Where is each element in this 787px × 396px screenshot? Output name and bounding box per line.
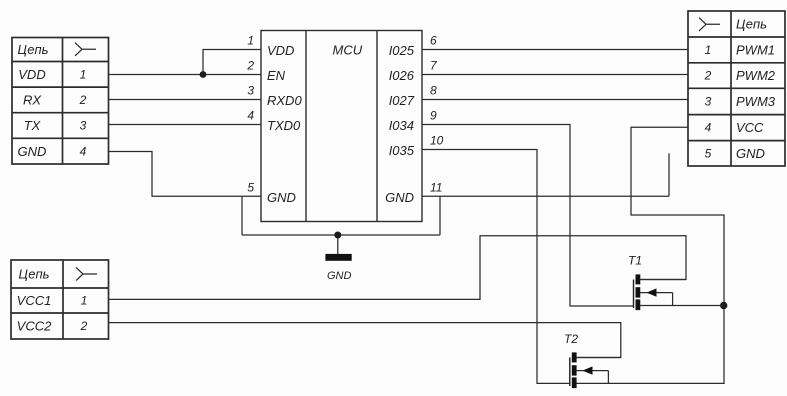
wire IO26 to PWM2 <box>422 74 688 76</box>
svg-text:1: 1 <box>705 43 712 57</box>
svg-text:I027: I027 <box>389 93 415 108</box>
connector symbol X3 header <box>76 267 97 280</box>
svg-text:6: 6 <box>430 34 437 48</box>
svg-text:1: 1 <box>247 34 254 48</box>
svg-text:GND: GND <box>736 146 765 161</box>
svg-text:Цепь: Цепь <box>19 267 50 282</box>
svg-text:RX: RX <box>23 93 42 108</box>
svg-text:1: 1 <box>80 68 87 82</box>
svg-text:9: 9 <box>430 109 437 123</box>
wire pin5 branch to ground rail <box>241 196 243 235</box>
wire TX to TXD0 <box>109 124 262 126</box>
svg-text:2: 2 <box>80 319 88 333</box>
svg-text:I026: I026 <box>389 68 415 83</box>
svg-text:3: 3 <box>80 119 87 133</box>
svg-text:4: 4 <box>247 109 254 123</box>
svg-text:I035: I035 <box>389 143 415 158</box>
wire stub to VDD pin1 <box>203 50 261 75</box>
svg-text:TXD0: TXD0 <box>267 118 301 133</box>
junction node VDD <box>200 71 207 78</box>
svg-text:PWM3: PWM3 <box>736 94 776 109</box>
svg-text:PWM1: PWM1 <box>736 43 775 58</box>
wire pin11 GND <box>422 195 669 197</box>
wire ground rail <box>242 234 440 236</box>
svg-text:I034: I034 <box>389 118 414 133</box>
wire VCC1 to T1 drain <box>109 236 687 300</box>
connector symbol X1 header <box>75 43 96 56</box>
wire pin11 branch down <box>439 196 441 235</box>
wire T1 source to VCC net <box>640 305 724 307</box>
svg-text:1: 1 <box>81 294 88 308</box>
svg-text:RXD0: RXD0 <box>267 93 302 108</box>
svg-text:VCC2: VCC2 <box>17 319 52 334</box>
svg-text:2: 2 <box>704 69 712 83</box>
wire right table GND row down <box>668 153 670 196</box>
svg-text:5: 5 <box>247 180 254 194</box>
MCU U1 box <box>261 31 422 222</box>
svg-text:VDD: VDD <box>18 67 45 82</box>
svg-text:8: 8 <box>430 84 437 98</box>
wire VDD row to EN pin2 <box>109 74 262 76</box>
connector table X3 (bottom-left: VCC1 VCC2) <box>11 260 109 339</box>
svg-text:VCC1: VCC1 <box>17 293 52 308</box>
wire IO25 to PWM1 <box>422 49 688 51</box>
svg-text:3: 3 <box>247 84 254 98</box>
svg-text:3: 3 <box>705 95 712 109</box>
svg-text:GND: GND <box>267 190 296 205</box>
svg-text:2: 2 <box>246 59 254 73</box>
svg-text:T1: T1 <box>628 254 642 268</box>
connector symbol X2 header <box>699 18 720 31</box>
wire IO34 to T1 gate <box>422 125 634 307</box>
connector table X1 (left: VDD RX TX GND) <box>12 38 109 165</box>
connector table X2 (right: PWM1 PWM2 PWM3 VCC GND) <box>688 11 785 166</box>
svg-text:2: 2 <box>79 93 87 107</box>
svg-text:VDD: VDD <box>267 43 294 58</box>
junction node ground rail <box>334 232 341 239</box>
ground symbol <box>325 235 351 282</box>
wire IO35 to T2 gate <box>422 150 570 384</box>
svg-text:I025: I025 <box>389 43 415 58</box>
svg-text:T2: T2 <box>564 332 578 346</box>
wire VCC row to sources <box>576 127 724 383</box>
svg-text:Цепь: Цепь <box>736 17 767 32</box>
svg-text:GND: GND <box>385 190 414 205</box>
transistor T2 <box>564 332 621 388</box>
svg-text:4: 4 <box>80 145 87 159</box>
svg-text:Цепь: Цепь <box>18 42 49 57</box>
wire RX to RXD0 <box>109 99 262 101</box>
svg-text:11: 11 <box>430 180 442 194</box>
transistor T1 <box>628 254 686 311</box>
svg-text:MCU: MCU <box>333 43 363 58</box>
junction node source T1 <box>720 302 727 309</box>
svg-text:TX: TX <box>24 118 42 133</box>
wire GND row to pin5 <box>109 152 262 197</box>
svg-text:4: 4 <box>705 121 712 135</box>
svg-text:10: 10 <box>430 134 444 148</box>
svg-text:GND: GND <box>18 144 47 159</box>
svg-text:GND: GND <box>327 270 352 282</box>
wire IO27 to PWM3 <box>422 99 688 101</box>
wire VCC2 to T2 drain <box>109 323 621 358</box>
svg-text:VCC: VCC <box>736 120 764 135</box>
svg-text:5: 5 <box>705 147 712 161</box>
svg-text:PWM2: PWM2 <box>736 68 776 83</box>
svg-text:EN: EN <box>267 68 286 83</box>
